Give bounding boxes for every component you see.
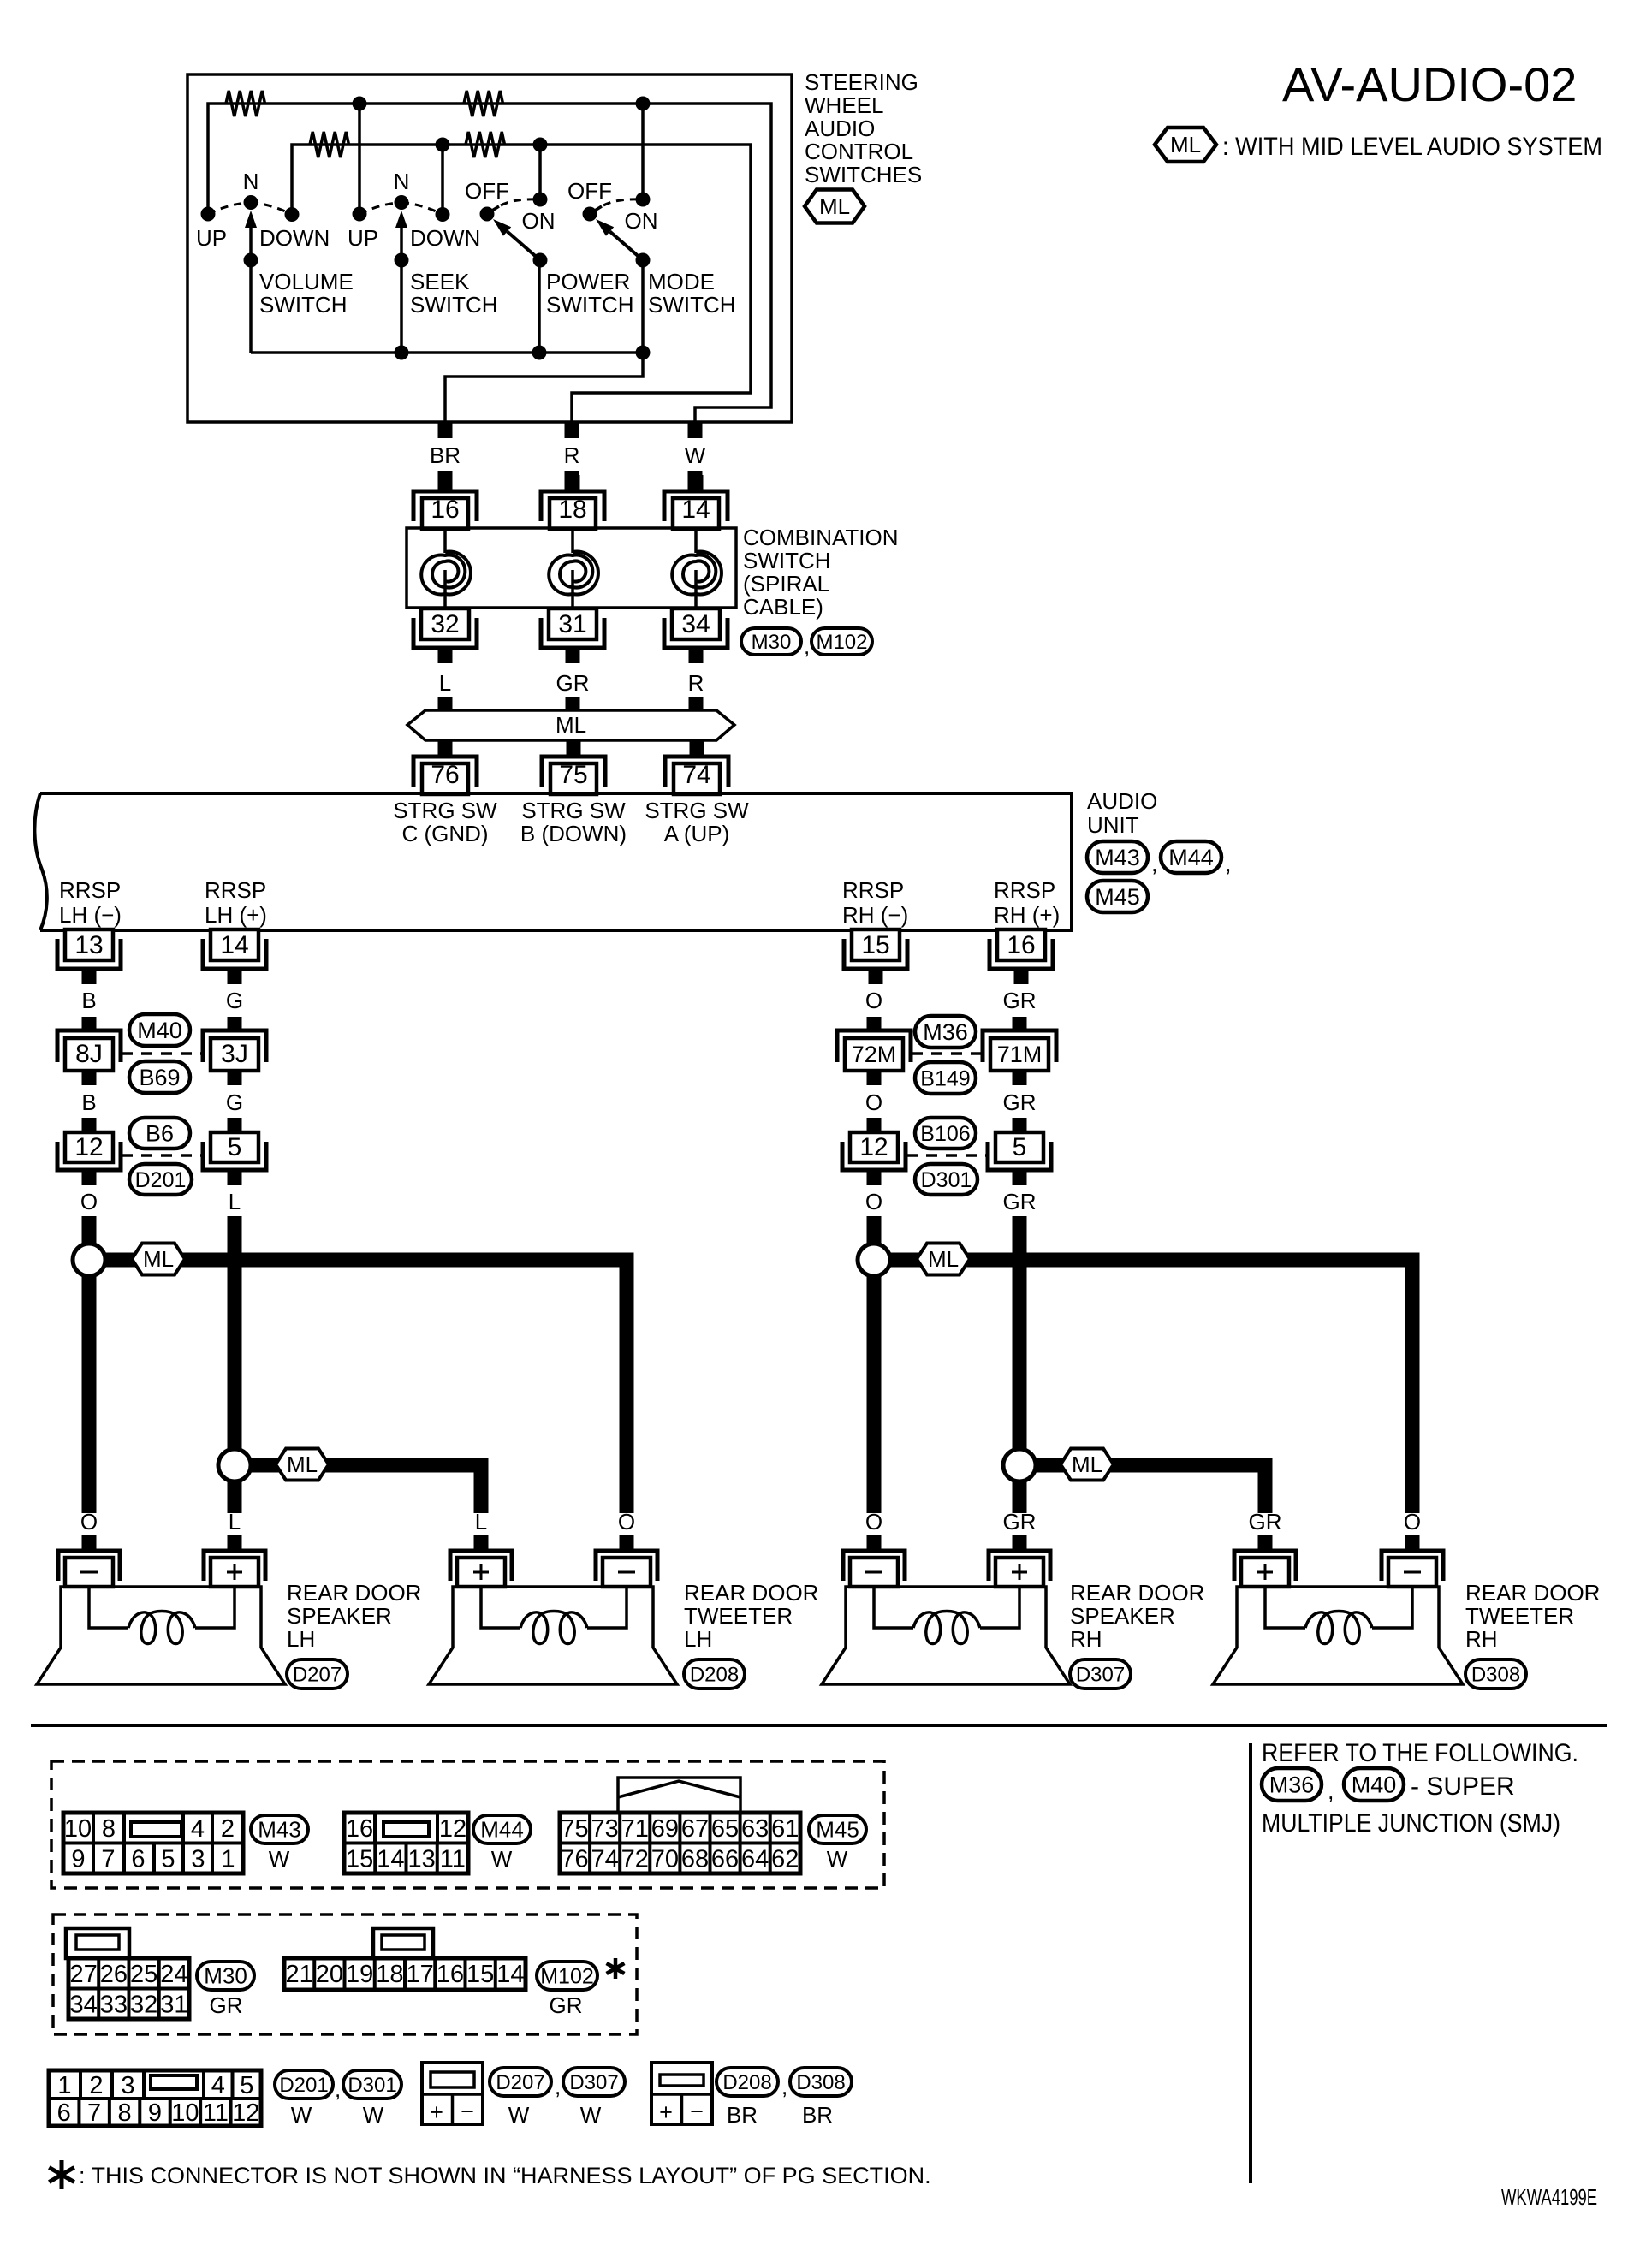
svg-text:ML: ML (928, 1246, 959, 1272)
svg-text:M45: M45 (816, 1817, 859, 1843)
svg-text:UNIT: UNIT (1087, 812, 1139, 838)
svg-text:RH (−): RH (−) (842, 902, 908, 928)
svg-text:12: 12 (439, 1815, 466, 1843)
svg-text:34: 34 (69, 1992, 97, 2019)
resistor R3 (310, 132, 349, 157)
svg-text:W: W (508, 2102, 530, 2128)
svg-text:B: B (81, 1089, 96, 1115)
svg-text:B: B (81, 988, 96, 1013)
svg-text:M40: M40 (1352, 1772, 1397, 1798)
svg-text:REAR DOOR: REAR DOOR (684, 1580, 818, 1606)
connector pin 75 (542, 740, 605, 794)
mode switch contacts (583, 193, 651, 222)
legend dashed box 1 (51, 1761, 884, 1888)
wire row2 volume-down to R (292, 145, 751, 422)
svg-text:RH: RH (1070, 1626, 1102, 1652)
svg-text:33: 33 (100, 1992, 128, 2019)
svg-text:62: 62 (771, 1846, 799, 1873)
svg-text:CONTROL: CONTROL (805, 139, 913, 164)
speaker rear door speaker LH (37, 1587, 285, 1684)
connector tag D307 (1070, 1659, 1131, 1689)
connector pin 15 (844, 929, 907, 984)
connector face D201 D301 (49, 2070, 261, 2127)
connector tag M102 (811, 628, 872, 655)
connector face M102 (284, 1928, 526, 1990)
svg-text:VOLUME: VOLUME (259, 269, 354, 294)
connector tag B69 (129, 1061, 190, 1093)
svg-text:D308: D308 (1471, 1664, 1520, 1687)
svg-text:AV-AUDIO-02: AV-AUDIO-02 (1282, 57, 1577, 111)
svg-text:3: 3 (121, 2072, 134, 2099)
svg-text:20: 20 (316, 1961, 343, 1988)
svg-text:12: 12 (232, 2099, 259, 2127)
connector tag M45 face (809, 1815, 866, 1843)
pin label STRG SW B (DOWN) (520, 798, 627, 846)
resistor R2 (464, 91, 503, 116)
svg-text:LH (+): LH (+) (205, 902, 267, 928)
label rear door tweeter RH (1465, 1580, 1600, 1652)
thick wire from junction A to rear door tweeter LH minus (104, 1260, 627, 1513)
svg-text:D307: D307 (569, 2071, 618, 2094)
svg-text:C (GND): C (GND) (401, 821, 488, 846)
pin label STRG SW C (GND) (393, 798, 497, 846)
svg-text:32: 32 (130, 1992, 157, 2019)
svg-text:M44: M44 (480, 1817, 524, 1843)
svg-text:M30: M30 (752, 631, 792, 654)
svg-text:REAR DOOR: REAR DOOR (1070, 1580, 1204, 1606)
svg-text:GR: GR (210, 1992, 243, 2018)
svg-text:REFER TO THE FOLLOWING.: REFER TO THE FOLLOWING. (1262, 1739, 1578, 1767)
wire O label (865, 988, 882, 1013)
svg-text:RRSP: RRSP (59, 877, 121, 903)
terminal rear door tweeter LH + (450, 1535, 512, 1587)
wire stub to pin 76 (438, 740, 453, 757)
junction D circle (1003, 1449, 1036, 1481)
svg-text:(SPIRAL: (SPIRAL (743, 571, 829, 597)
svg-text:68: 68 (681, 1846, 709, 1873)
svg-text:76: 76 (431, 761, 459, 789)
svg-text:W: W (269, 1846, 290, 1872)
terminal rear door speaker RH + (989, 1535, 1050, 1587)
connector 12 right (842, 1118, 906, 1185)
svg-text:25: 25 (130, 1961, 157, 1988)
svg-text:- SUPER: - SUPER (1411, 1772, 1515, 1801)
wire stub to pin 74 (690, 740, 704, 757)
svg-text:34: 34 (681, 610, 710, 638)
svg-text:N: N (243, 169, 259, 194)
legend ML symbol (1155, 128, 1216, 162)
svg-text:13: 13 (74, 931, 103, 959)
seek switch contacts (353, 195, 450, 222)
ML tag on junction D wire (1061, 1449, 1114, 1481)
connector face D208 D308 (651, 2063, 712, 2125)
svg-text:M43: M43 (1095, 845, 1140, 870)
speaker rear door tweeter RH (1213, 1587, 1463, 1684)
svg-text:BR: BR (802, 2102, 833, 2128)
svg-text:31: 31 (160, 1992, 187, 2019)
svg-text:,: , (555, 2074, 561, 2099)
pin label RRSP RH (-) (842, 877, 908, 928)
svg-text:WKWA4199E: WKWA4199E (1501, 2184, 1597, 2210)
svg-text:16: 16 (1007, 931, 1035, 959)
resistor R1 (226, 91, 265, 116)
svg-text:M36: M36 (923, 1019, 968, 1045)
svg-text:73: 73 (591, 1815, 619, 1843)
svg-text:M102: M102 (816, 631, 867, 654)
svg-text:,: , (1151, 851, 1158, 876)
svg-text:16: 16 (346, 1815, 373, 1843)
thick wire O column right upper (867, 1216, 882, 1244)
svg-text:3J: 3J (221, 1040, 248, 1068)
svg-text:64: 64 (741, 1846, 769, 1873)
thick wire GR column right lower (1013, 1481, 1027, 1513)
wire BR stub and label (430, 423, 461, 490)
wire stub to pin 75 (567, 740, 581, 757)
svg-text:L: L (229, 1509, 241, 1535)
svg-text:M45: M45 (1095, 884, 1140, 910)
asterisk for M102 (607, 1958, 625, 1979)
connector 5 right (988, 1118, 1051, 1185)
svg-text:CABLE): CABLE) (743, 594, 823, 620)
svg-text:M40: M40 (137, 1018, 182, 1043)
svg-text:O: O (1404, 1509, 1421, 1535)
svg-text:SWITCH: SWITCH (410, 292, 498, 318)
junction B circle (218, 1449, 251, 1481)
svg-text:L: L (475, 1509, 487, 1535)
svg-text:WHEEL: WHEEL (805, 92, 883, 118)
thick wire O column left upper (82, 1216, 97, 1244)
svg-text:N: N (394, 169, 410, 194)
svg-text:SPEAKER: SPEAKER (287, 1603, 392, 1629)
power switch label (546, 269, 634, 318)
svg-text:A (UP): A (UP) (664, 821, 730, 846)
svg-text:11: 11 (203, 2099, 229, 2127)
svg-text:B (DOWN): B (DOWN) (520, 821, 627, 846)
connector tag B106 (915, 1118, 976, 1149)
svg-text:75: 75 (559, 761, 587, 789)
svg-text:M30: M30 (204, 1963, 247, 1989)
svg-text:STEERING: STEERING (805, 69, 918, 95)
svg-text:: WITH MID LEVEL AUDIO SYSTEM: : WITH MID LEVEL AUDIO SYSTEM (1222, 133, 1602, 161)
svg-text:O: O (618, 1509, 635, 1535)
svg-text:ON: ON (625, 208, 658, 234)
connector pin 16 (413, 475, 477, 529)
svg-text:SWITCH: SWITCH (648, 292, 736, 318)
volume switch label (259, 269, 354, 318)
svg-text:74: 74 (682, 761, 710, 789)
svg-text:6: 6 (131, 1846, 145, 1873)
svg-text:D207: D207 (496, 2071, 544, 2094)
connector tag M44 (1161, 841, 1221, 873)
connector tag M40 legend (1344, 1768, 1404, 1801)
svg-text:D207: D207 (293, 1664, 342, 1687)
svg-text:12: 12 (74, 1133, 103, 1161)
connector 3J (203, 1017, 266, 1085)
svg-text:5: 5 (228, 1133, 242, 1161)
wire GR label (1003, 988, 1037, 1013)
svg-text:16: 16 (437, 1961, 464, 1988)
svg-text:BR: BR (430, 442, 461, 468)
combination switch label (743, 525, 899, 620)
thick wire O column left lower (82, 1276, 97, 1513)
svg-text:10: 10 (64, 1815, 92, 1843)
svg-text:+: + (659, 2099, 673, 2125)
terminal rear door speaker RH - (843, 1535, 905, 1587)
thick wire from junction D to rear door tweeter RH plus (1035, 1465, 1265, 1513)
svg-text:6: 6 (57, 2099, 71, 2127)
svg-text:GR: GR (556, 670, 590, 696)
connector tag D201 (129, 1164, 192, 1195)
terminal rear door speaker LH - (58, 1535, 120, 1587)
connector tag M43 (1087, 841, 1148, 873)
svg-text:9: 9 (148, 2099, 162, 2127)
wire BR exit (445, 353, 643, 422)
power switch contacts (480, 193, 548, 222)
svg-text:R: R (688, 670, 704, 696)
svg-text:,: , (1328, 1778, 1334, 1804)
svg-text:W: W (291, 2102, 312, 2128)
svg-text:D201: D201 (279, 2074, 328, 2097)
audio unit label (1087, 788, 1157, 838)
node row1 to seek-up (353, 97, 367, 215)
legend divider line (1249, 1743, 1252, 2183)
connector pin 76 (413, 740, 477, 794)
connector face D207 D307 (422, 2063, 483, 2125)
svg-text:O: O (865, 1189, 882, 1214)
svg-text:76: 76 (561, 1846, 588, 1873)
connector tag D208 (684, 1659, 745, 1689)
svg-text:ML: ML (287, 1452, 318, 1477)
junction A circle (73, 1244, 105, 1276)
svg-text:M36: M36 (1269, 1772, 1315, 1798)
svg-text:W: W (827, 1846, 848, 1872)
svg-text:D307: D307 (1076, 1664, 1125, 1687)
connector tag M102 face (537, 1962, 597, 1990)
svg-text:STRG SW: STRG SW (645, 798, 749, 823)
connector tag M30 (741, 628, 801, 655)
junction C circle (858, 1244, 890, 1276)
wire row1 volume-up to W (208, 104, 771, 422)
svg-text:G: G (226, 988, 243, 1013)
svg-text:TWEETER: TWEETER (684, 1603, 793, 1629)
svg-text:B106: B106 (920, 1122, 970, 1146)
terminal rear door tweeter RH + (1234, 1535, 1296, 1587)
svg-text:10: 10 (171, 2099, 199, 2127)
svg-text:3: 3 (191, 1846, 205, 1873)
svg-text:STRG SW: STRG SW (521, 798, 626, 823)
ML tag on junction B wire (276, 1449, 329, 1481)
dashed link left lower (122, 1154, 202, 1157)
svg-text:POWER: POWER (546, 269, 630, 294)
svg-text:,: , (781, 2074, 787, 2099)
connector 8J (57, 1017, 121, 1085)
svg-text:O: O (865, 988, 882, 1013)
svg-text:SWITCH: SWITCH (259, 292, 348, 318)
pin label RRSP LH (+) (205, 877, 267, 928)
connector pin 14 (664, 475, 728, 529)
thick wire from junction C to rear door tweeter RH minus (889, 1260, 1412, 1513)
svg-text:32: 32 (431, 610, 459, 638)
svg-text:ML: ML (556, 712, 586, 738)
connector 72M (837, 1017, 911, 1085)
thick wire O column right lower (867, 1276, 882, 1513)
svg-text:,: , (1225, 851, 1232, 876)
svg-text:RRSP: RRSP (205, 877, 266, 903)
svg-text:D201: D201 (135, 1168, 187, 1192)
svg-text:ON: ON (522, 208, 556, 234)
svg-text:REAR DOOR: REAR DOOR (287, 1580, 421, 1606)
svg-text:UP: UP (196, 225, 227, 251)
connector face M30 (66, 1928, 189, 2019)
svg-text:14: 14 (496, 1961, 524, 1988)
thick wire GR column right (1013, 1216, 1027, 1449)
svg-text:M102: M102 (540, 1964, 594, 1988)
separator line (31, 1724, 1607, 1727)
svg-text:2: 2 (89, 2072, 103, 2099)
svg-text:O: O (80, 1189, 98, 1214)
svg-text:RRSP: RRSP (994, 877, 1055, 903)
combination switch box (407, 528, 736, 608)
svg-text:−: − (690, 2099, 704, 2124)
node row2 to power-on (533, 138, 548, 200)
thick wire from junction B to rear door tweeter LH plus (250, 1465, 481, 1513)
svg-text:5: 5 (240, 2072, 253, 2099)
svg-text:GR: GR (1003, 1509, 1037, 1535)
svg-text:GR: GR (1249, 1509, 1282, 1535)
svg-text:ML: ML (1170, 132, 1201, 157)
dashed link right lower (906, 1154, 987, 1157)
svg-text:13: 13 (407, 1846, 435, 1873)
label steering wheel audio control switches (805, 69, 922, 187)
connector tag D301 face (343, 2070, 401, 2099)
svg-text:67: 67 (681, 1815, 709, 1843)
terminal rear door tweeter RH - (1382, 1535, 1443, 1587)
svg-text:−: − (461, 2099, 474, 2124)
svg-text:17: 17 (406, 1961, 433, 1988)
ML band (407, 710, 734, 740)
svg-text:70: 70 (651, 1846, 679, 1873)
svg-text:B149: B149 (920, 1066, 970, 1090)
svg-text:7: 7 (101, 1846, 115, 1873)
svg-text:LH: LH (684, 1626, 712, 1652)
svg-text:OFF: OFF (465, 178, 509, 204)
connector tag M43 face (251, 1815, 308, 1843)
svg-text:ML: ML (1072, 1452, 1102, 1477)
svg-text:RH (+): RH (+) (994, 902, 1060, 928)
svg-text:72M: 72M (852, 1042, 897, 1067)
svg-text:M43: M43 (258, 1817, 301, 1843)
svg-text:G: G (226, 1089, 243, 1115)
svg-text:COMBINATION: COMBINATION (743, 525, 899, 550)
connector tag D208 face (716, 2068, 778, 2096)
ML tag on junction A wire (132, 1244, 185, 1275)
svg-text:75: 75 (561, 1815, 588, 1843)
svg-text:74: 74 (591, 1846, 619, 1873)
svg-text:15: 15 (466, 1961, 494, 1988)
svg-text:15: 15 (861, 931, 889, 959)
connector pin 31 (541, 609, 604, 663)
svg-text:M44: M44 (1168, 845, 1214, 870)
wire B label (81, 988, 96, 1013)
svg-text:MODE: MODE (648, 269, 715, 294)
svg-text:,: , (335, 2076, 341, 2102)
svg-text:RRSP: RRSP (842, 877, 904, 903)
power switch arm (493, 219, 548, 268)
connector tag M40 (129, 1014, 190, 1046)
svg-text:GR: GR (1003, 1089, 1037, 1115)
connector tag B149 (915, 1062, 976, 1094)
thick wire L column left (228, 1216, 242, 1449)
svg-text:16: 16 (431, 496, 459, 524)
pin label RRSP LH (-) (59, 877, 122, 928)
svg-text:8J: 8J (75, 1040, 103, 1068)
connector tag M30 face (197, 1962, 254, 1990)
connector tag D308 (1465, 1659, 1526, 1689)
svg-text:SWITCH: SWITCH (743, 548, 831, 573)
connector pin 18 (541, 475, 604, 529)
svg-text:ML: ML (143, 1246, 174, 1272)
connector pin 74 (665, 740, 728, 794)
svg-text:O: O (865, 1509, 882, 1535)
svg-text:69: 69 (651, 1815, 679, 1843)
wire W stub and label (685, 423, 706, 490)
svg-text:27: 27 (69, 1961, 97, 1988)
node row2 to seek-down (436, 138, 450, 215)
svg-text:1: 1 (57, 2072, 71, 2099)
svg-text:GR: GR (550, 1992, 583, 2018)
svg-text:DOWN: DOWN (259, 225, 330, 251)
svg-text:BR: BR (727, 2102, 758, 2128)
volume switch arm (244, 211, 258, 268)
speaker rear door tweeter LH (429, 1587, 677, 1684)
svg-text:SWITCH: SWITCH (546, 292, 634, 318)
wire R label (688, 670, 704, 710)
svg-text:,: , (804, 633, 810, 659)
svg-text:31: 31 (558, 610, 586, 638)
connector tag M36 legend (1262, 1768, 1322, 1801)
spiral cable symbol at x=813 (672, 530, 722, 608)
svg-text:SEEK: SEEK (410, 269, 470, 294)
svg-text:15: 15 (346, 1846, 373, 1873)
audio unit box (34, 793, 1072, 930)
steering wheel audio control switches box (187, 74, 792, 422)
connector tag D301 (915, 1164, 977, 1195)
svg-text:OFF: OFF (567, 178, 612, 204)
legend dashed box 2 (53, 1915, 637, 2034)
SMJ dashed link left (122, 1052, 202, 1055)
wire G label (226, 988, 243, 1013)
svg-text:12: 12 (859, 1133, 888, 1161)
svg-text:65: 65 (711, 1815, 739, 1843)
svg-text:71M: 71M (997, 1042, 1043, 1067)
svg-text:8: 8 (117, 2099, 131, 2127)
svg-text:7: 7 (87, 2099, 101, 2127)
connector tag B6 (129, 1118, 190, 1149)
svg-text:D301: D301 (348, 2074, 396, 2097)
svg-text:SWITCHES: SWITCHES (805, 162, 922, 187)
svg-text:24: 24 (160, 1961, 187, 1988)
svg-text:14: 14 (220, 931, 248, 959)
pin label RRSP RH (+) (994, 877, 1060, 928)
ML tag on junction C wire (917, 1244, 970, 1275)
svg-text:72: 72 (621, 1846, 649, 1873)
connector tag D308 face (790, 2068, 852, 2096)
mode switch arm (596, 219, 651, 268)
svg-text:W: W (491, 1846, 513, 1872)
pin label STRG SW A (UP) (645, 798, 749, 846)
seek switch arm (395, 211, 409, 268)
switch common bus wire (251, 260, 651, 360)
